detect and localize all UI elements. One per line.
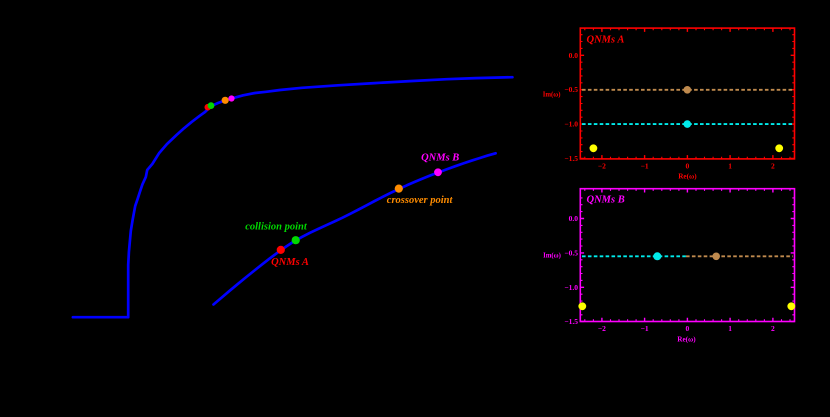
panel B major ticks [580,189,794,322]
svg-text:−2: −2 [598,324,606,333]
svg-text:−1.0: −1.0 [564,283,578,292]
panel A brown dashed line [582,89,793,91]
svg-text:−2: −2 [598,162,606,171]
panel B frame [580,189,794,322]
svg-text:Re(ω): Re(ω) [677,335,696,343]
svg-text:Re(ω): Re(ω) [678,173,697,181]
svg-text:Im(ω): Im(ω) [543,252,561,259]
svg-text:0: 0 [686,324,690,333]
svg-text:QNMs A: QNMs A [587,34,625,45]
svg-text:1: 1 [728,162,732,171]
panel A cyan dot [684,120,692,128]
upper-curve green dot (collision point) [208,102,215,109]
svg-text:−0.5: −0.5 [564,248,578,257]
panel A cyan dashed line [582,123,793,125]
svg-text:QNMs B: QNMs B [421,153,459,164]
svg-text:−1.5: −1.5 [564,154,578,163]
svg-text:−1.5: −1.5 [564,317,578,326]
svg-text:crossover point: crossover point [387,195,454,206]
svg-text:−1.0: −1.0 [564,120,578,129]
lower-curve orange dot crossover point [395,185,403,193]
upper-curve orange dot (crossover point) [222,97,229,104]
svg-text:QNMs A: QNMs A [271,257,309,268]
svg-text:−1: −1 [641,162,649,171]
panel B yellow dot left [578,302,586,310]
panel A minor ticks [580,28,794,159]
svg-text:−0.5: −0.5 [564,85,578,94]
svg-text:QNMs B: QNMs B [587,194,625,205]
panel B yellow dot right [787,302,795,310]
panel A major ticks [580,28,794,159]
upper blue curve [73,77,513,317]
panel A frame [580,28,794,159]
svg-text:2: 2 [771,324,775,333]
lower-curve magenta dot QNMs B [434,168,442,176]
panel B cyan dot [653,252,661,260]
lower blue curve [214,153,496,304]
svg-text:0.0: 0.0 [569,51,579,60]
upper-curve red dot (QNMs A, behind green) [205,104,212,111]
svg-text:−1: −1 [641,324,649,333]
panel A yellow dot left [590,144,598,152]
panel B minor ticks [580,189,794,322]
panel B brown dashed line [686,255,793,257]
svg-text:collision point: collision point [245,221,308,232]
svg-text:Im(ω): Im(ω) [543,91,561,98]
panel A yellow dot right [775,144,783,152]
panel A brown dot [684,86,692,94]
svg-text:1: 1 [728,324,732,333]
upper-curve magenta dot (QNMs B) [228,95,234,101]
panel B brown dot [712,252,720,260]
svg-text:0.0: 0.0 [569,214,579,223]
svg-text:0: 0 [686,162,690,171]
panel B cyan dashed line [582,255,686,257]
svg-text:2: 2 [771,162,775,171]
lower-curve red dot QNMs A [277,246,285,254]
lower-curve green dot collision point [292,236,300,244]
